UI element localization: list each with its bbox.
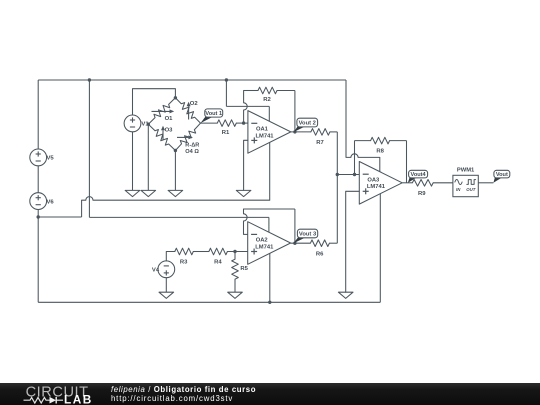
resistor R7 xyxy=(311,129,330,136)
resistor R4 xyxy=(209,248,228,255)
wire R2 top right xyxy=(277,90,295,92)
op-amp OA1 LM741 xyxy=(248,111,291,154)
wire R2 left leg with hop xyxy=(244,91,248,124)
resistor O4 bridge arm R-dR xyxy=(175,123,200,150)
wire summing to OA3 minus xyxy=(337,174,359,176)
node bridge top xyxy=(174,96,177,99)
svg-text:OA3: OA3 xyxy=(367,178,380,184)
wire bridge left to ground xyxy=(147,124,149,190)
wire OA1 output to R7 xyxy=(291,131,311,133)
arrow of O3 xyxy=(162,130,164,139)
wire OA2 feedback right xyxy=(294,209,296,243)
wire OA2 feedback left with hop xyxy=(244,209,248,234)
wire bottom supply rail xyxy=(38,301,380,303)
wire OA3 plus input xyxy=(346,191,360,292)
wire V5 to V6 xyxy=(37,166,39,193)
wire left rail to V5 xyxy=(37,80,39,149)
wire OA1 plus input xyxy=(244,140,248,190)
node OA1 inverting input xyxy=(242,121,245,124)
svg-text:R3: R3 xyxy=(180,260,188,266)
svg-text:V4: V4 xyxy=(152,268,160,274)
resistor O3 bridge arm xyxy=(148,124,175,150)
wire OA1 V+ run y106 xyxy=(226,105,269,107)
footer title text xyxy=(111,385,256,394)
resistor R8 xyxy=(371,137,390,144)
node C junction below V6 xyxy=(37,215,40,218)
svg-text:O1: O1 xyxy=(165,116,174,122)
wire V4 bottom xyxy=(165,278,167,293)
resistor R3 xyxy=(175,248,194,255)
flag Vout 1 xyxy=(201,116,214,123)
flag Vout4 xyxy=(408,177,417,183)
ground bridge bottom xyxy=(168,190,183,196)
voltage source V4 inverted xyxy=(158,261,175,278)
wire R7 to drop xyxy=(330,131,337,133)
wire node C down left rail xyxy=(37,217,39,302)
wire V6 to node C xyxy=(37,210,39,217)
svg-text:OUT: OUT xyxy=(466,187,475,192)
wire V1 bottom xyxy=(132,132,134,191)
wire node C to x81 xyxy=(38,216,81,218)
voltage source V6 xyxy=(30,193,47,210)
wire bridge right to R1 xyxy=(201,122,218,124)
svg-text:O4 Ω: O4 Ω xyxy=(185,149,199,155)
svg-text:Vout4: Vout4 xyxy=(411,172,427,178)
wire OA2 output to R6 xyxy=(291,242,311,244)
wire OA2 V+ pin xyxy=(268,217,270,232)
wire R2 right leg xyxy=(294,91,296,132)
svg-text:R5: R5 xyxy=(240,266,248,272)
resistor O2 bridge arm xyxy=(175,98,200,123)
ground OA1 plus xyxy=(236,190,251,196)
svg-text:OA1: OA1 xyxy=(256,127,269,133)
svg-text:V6: V6 xyxy=(47,199,55,205)
wire top supply rail xyxy=(38,79,346,81)
resistor O1 bridge arm xyxy=(148,98,175,124)
node bottom-rail junction OA2 V- xyxy=(268,301,271,304)
node R4 R5 junction xyxy=(233,250,236,253)
svg-text:V5: V5 xyxy=(47,156,55,162)
wire OA2 minus stub xyxy=(244,233,248,235)
ground bridge left xyxy=(141,190,156,196)
CircuitLab logo xyxy=(20,383,130,405)
resistor R9 xyxy=(412,180,433,187)
svg-text:R8: R8 xyxy=(376,148,384,154)
svg-text:Vout 2: Vout 2 xyxy=(299,121,316,127)
wire R9 to PWM1 xyxy=(433,182,453,184)
wire R8 right leg xyxy=(406,141,408,183)
flag Vout xyxy=(493,177,502,183)
wire R3 to R4 xyxy=(193,251,209,253)
node top-rail junction B xyxy=(225,78,228,81)
footer url text xyxy=(111,394,233,403)
resistor R1 xyxy=(217,120,236,127)
wire rail drop x346 xyxy=(345,80,347,157)
svg-text:LM741: LM741 xyxy=(367,184,386,190)
voltage source V5 xyxy=(30,149,47,166)
wire drop x337 to R6 level xyxy=(336,132,338,243)
svg-text:R6: R6 xyxy=(316,251,324,257)
svg-text:LM741: LM741 xyxy=(255,133,274,139)
arrow of O4 xyxy=(177,136,188,138)
wire R8 top right xyxy=(390,140,407,142)
ground below V1 xyxy=(125,190,140,196)
node R8 left junction xyxy=(353,173,356,176)
wire OA3 V- pin xyxy=(379,194,381,303)
svg-text:LM741: LM741 xyxy=(255,244,274,250)
wire R1 to OA1 minus xyxy=(236,122,248,124)
PWM block PWM1 xyxy=(453,175,478,196)
node OA1 output junction xyxy=(293,130,296,133)
svg-text:LAB: LAB xyxy=(64,393,93,405)
voltage source V1 xyxy=(124,115,141,132)
wire R8 left leg xyxy=(354,141,356,175)
wire rail drop x226 OA1 V+ xyxy=(225,80,227,106)
wire R2 top left xyxy=(244,90,258,92)
wire jog up at x81 xyxy=(81,200,83,217)
svg-text:R-ΔR: R-ΔR xyxy=(185,143,199,149)
svg-text:O3: O3 xyxy=(165,128,174,134)
resistor R5 vertical xyxy=(232,259,239,279)
svg-text:Vout 3: Vout 3 xyxy=(299,232,317,238)
wire V4 top xyxy=(166,252,175,261)
wire OA1 V+ pin xyxy=(268,106,270,121)
svg-text:R7: R7 xyxy=(316,140,324,146)
op-amp OA3 LM741 xyxy=(359,162,402,205)
node OA2 output junction xyxy=(293,242,296,245)
node bridge left xyxy=(147,123,150,126)
op-amp OA2 LM741 xyxy=(248,222,291,265)
wire OA2 V- pin xyxy=(269,253,271,302)
svg-text:R1: R1 xyxy=(222,130,230,136)
wire PWM1 out xyxy=(478,182,493,184)
flag Vout 3 xyxy=(294,237,306,244)
ground OA3 plus xyxy=(338,292,353,298)
node bridge bottom xyxy=(174,149,177,152)
node top-rail junction A xyxy=(88,78,91,81)
arrow of O2 xyxy=(188,106,190,119)
svg-text:O2: O2 xyxy=(190,101,199,107)
wire OA2 feedback top xyxy=(244,208,295,210)
wire V1 top xyxy=(133,89,176,115)
node summing junction xyxy=(336,173,339,176)
wire rail run y157 with hop xyxy=(346,154,380,158)
wire R6 to drop xyxy=(329,242,337,244)
wire OA3 V+ pin xyxy=(379,157,381,171)
svg-text:R2: R2 xyxy=(263,97,271,103)
resistor R2 xyxy=(258,87,277,94)
svg-text:Vout: Vout xyxy=(496,172,508,178)
resistor R6 xyxy=(310,240,329,247)
wire V- run y200 with hop xyxy=(82,197,270,201)
wire R5 to ground xyxy=(234,279,236,292)
flag Vout 2 xyxy=(294,126,306,132)
wire rail drop x89 xyxy=(88,80,90,217)
ground below V4 xyxy=(159,292,174,298)
wire bridge bottom to ground xyxy=(174,151,176,191)
wire rail run y217 xyxy=(89,216,269,218)
svg-text:R4: R4 xyxy=(214,260,222,266)
ground below R5 xyxy=(228,292,243,298)
footer bar xyxy=(0,383,540,405)
svg-text:Vout 1: Vout 1 xyxy=(205,111,222,117)
wire OA3 output xyxy=(402,182,412,184)
wire R4 to OA2 plus xyxy=(227,251,247,253)
svg-text:R9: R9 xyxy=(418,191,426,197)
wire R5 top xyxy=(234,252,236,260)
arrow of O1 xyxy=(152,110,170,112)
svg-text:PWM1: PWM1 xyxy=(457,168,475,174)
svg-text:OA2: OA2 xyxy=(256,238,268,244)
wire R8 top left xyxy=(355,140,371,142)
wire OA1 V- pin xyxy=(269,142,271,200)
